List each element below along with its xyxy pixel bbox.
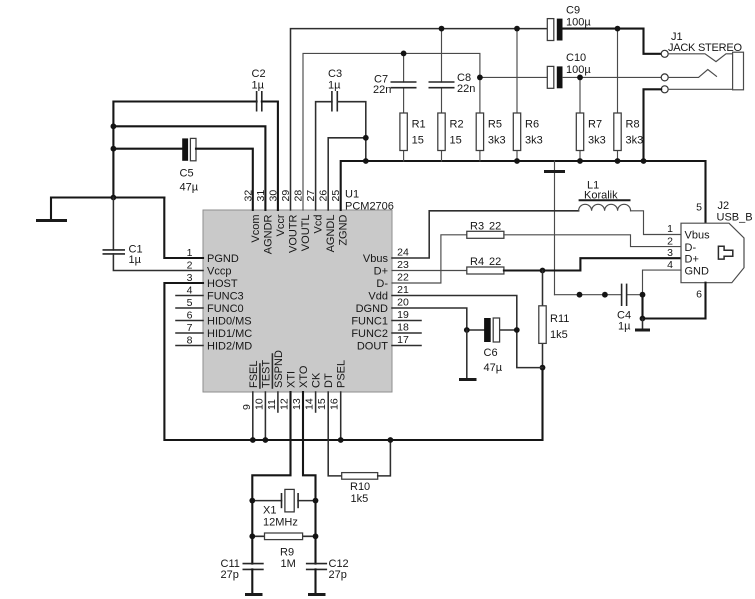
svg-text:18: 18 (397, 322, 409, 334)
svg-text:47µ: 47µ (484, 362, 503, 374)
wire pin 4 stub (176, 295, 203, 297)
svg-text:R5: R5 (488, 119, 502, 131)
junction on bus at C5 row (111, 146, 117, 152)
resistor R8 3k3 and leads (617, 29, 619, 161)
ground (USB/C4) (635, 319, 650, 331)
svg-text:XTI: XTI (286, 371, 298, 388)
wire R1/C7 column from VOUTL row (403, 53, 405, 161)
U1 top pin number 28 (293, 190, 305, 202)
svg-text:2: 2 (667, 235, 673, 247)
U1 top pin number 26 (318, 190, 330, 202)
svg-text:100µ: 100µ (566, 17, 591, 29)
wire pin3 HOST riser and bottom Vdd rail (164, 283, 542, 440)
junction rail at R7 (577, 158, 583, 164)
ground (below C6) (459, 330, 477, 380)
svg-text:6: 6 (696, 289, 702, 301)
wire AGNDR row to pin31 (113, 126, 265, 210)
wire C4 ground row (555, 294, 643, 296)
wire pin10 TEST drop (264, 392, 266, 440)
svg-text:D+: D+ (685, 253, 699, 265)
U1 bottom pin number 10 (253, 398, 265, 410)
wire VOUTR pin29 riser and row to C9 (291, 29, 548, 210)
U1 right pin name DOUT (357, 341, 388, 353)
U1 top pin number 31 (255, 190, 267, 202)
svg-text:1µ: 1µ (252, 80, 265, 92)
wire pin 17 stub (392, 345, 421, 347)
svg-text:3k3: 3k3 (525, 135, 543, 147)
svg-text:22: 22 (489, 220, 501, 232)
svg-text:GND: GND (685, 265, 710, 277)
crystal X1 12MHz (252, 489, 315, 528)
svg-text:3k3: 3k3 (588, 135, 606, 147)
wire PGND pin1 riser (164, 198, 203, 259)
svg-text:C10: C10 (566, 52, 586, 64)
wire pin 8 stub (176, 345, 203, 347)
capacitor C1 1u (103, 244, 143, 267)
svg-text:3k3: 3k3 (488, 135, 506, 147)
U1 left pin number 7 (187, 322, 193, 334)
resistor R1 15 (400, 113, 426, 151)
svg-text:R11: R11 (550, 313, 569, 325)
resistor R7 3k3 and leads (579, 77, 581, 161)
svg-text:CK: CK (311, 372, 323, 388)
wire pin 18 stub (392, 332, 421, 334)
overbar on TEST pin name (259, 364, 261, 388)
capacitor C12 27p (306, 558, 349, 581)
wire pin11 stub (277, 392, 279, 412)
capacitor C11 27p (221, 558, 264, 581)
U1 bottom pin number 15 (316, 398, 328, 410)
svg-text:1: 1 (667, 223, 673, 235)
U1 right pin number 23 (397, 259, 409, 271)
U1 left pin number 2 (187, 260, 193, 272)
junction C4 row a (577, 292, 583, 298)
U1 right pin number 18 (397, 322, 409, 334)
svg-text:DOUT: DOUT (357, 341, 388, 353)
U1 left pin number 6 (187, 310, 193, 322)
svg-text:TEST: TEST (260, 360, 272, 388)
svg-text:100µ: 100µ (566, 64, 591, 76)
resistor R4 22 (467, 256, 504, 274)
U1 bottom pin number 14 (304, 398, 316, 410)
junction VOUTR row at R6 (514, 26, 520, 32)
junction VOUTR row at C8 (439, 26, 445, 32)
capacitor C8 22n (429, 72, 476, 95)
U1 top pin name Vcd (pin 27) (313, 215, 325, 234)
U1 top pin number 30 (267, 190, 279, 202)
svg-text:Koralik: Koralik (584, 189, 618, 201)
svg-text:C9: C9 (566, 5, 580, 17)
wire pin14 stub (315, 392, 317, 412)
svg-text:Vcom: Vcom (250, 215, 262, 243)
U1 left pin number 5 (187, 297, 193, 309)
U1 top pin number 32 (242, 190, 254, 202)
wire left ground bus vertical and top wire to C2 (113, 102, 256, 198)
wire to left ground symbol (51, 198, 164, 219)
svg-text:JACK STEREO: JACK STEREO (668, 42, 742, 54)
svg-text:PSEL: PSEL (336, 360, 348, 388)
junction C10 row at R7 (577, 75, 583, 81)
svg-text:X1: X1 (263, 505, 276, 517)
svg-text:5: 5 (696, 202, 702, 214)
wire C3 right to ground rail (337, 102, 366, 161)
svg-text:C5: C5 (180, 168, 194, 180)
svg-text:HOST: HOST (207, 278, 238, 290)
junction crystal left (249, 498, 255, 504)
ground (top left) (36, 219, 67, 222)
ground (C12) (308, 569, 326, 594)
U1 left pin name HID1/MC (207, 328, 252, 340)
svg-text:27p: 27p (221, 569, 239, 581)
resistor R3 22 (467, 220, 504, 238)
U1 top pin name Vcom (pin 32) (250, 215, 262, 243)
U1 reference label (345, 189, 394, 213)
junction VOUTL row at C7 (401, 51, 407, 57)
U1 right pin name Vbus (363, 253, 389, 265)
wire jack sleeve to ground rail (644, 89, 662, 161)
wire C9 right to jack tip (563, 29, 662, 54)
wire pin 6 stub (176, 320, 203, 322)
svg-text:1µ: 1µ (618, 321, 631, 333)
svg-text:20: 20 (397, 297, 409, 309)
U1 left pin name HOST (207, 278, 238, 290)
capacitor C3 1u (328, 68, 342, 112)
U1 right pin name Vdd (368, 291, 388, 303)
capacitor C9 100u (547, 5, 591, 41)
svg-text:8: 8 (187, 335, 193, 347)
jack ring contact (661, 70, 716, 81)
wire pin 7 stub (176, 332, 203, 334)
resistor R9 1M (252, 533, 315, 570)
U1 right pin name FUNC2 (351, 328, 388, 340)
op-amp U1 PCM2706 IC body (203, 210, 392, 392)
U1 left pin name HID2/MD (207, 341, 252, 353)
svg-text:R7: R7 (588, 119, 602, 131)
U1 bottom pin number 12 (279, 398, 291, 410)
U1 right pin name DGND (356, 303, 388, 315)
junction rail at R8 (615, 158, 621, 164)
resistor R6 3k3 and leads (516, 29, 518, 161)
svg-text:15: 15 (412, 135, 424, 147)
wire pin9 FSEL drop (252, 392, 254, 440)
svg-text:C2: C2 (252, 68, 266, 80)
svg-text:PGND: PGND (207, 253, 239, 265)
U1 left pin name Vccp (207, 266, 231, 278)
U1 top pin number 29 (280, 190, 292, 202)
svg-text:D+: D+ (374, 266, 388, 278)
wire C2 to pin30 Vccr (262, 102, 278, 211)
svg-text:R9: R9 (280, 547, 294, 559)
U1 bottom pin number 9 (241, 404, 253, 410)
svg-text:22: 22 (397, 272, 409, 284)
U1 top pin name ZGND (pin 25) (338, 214, 350, 245)
U1 left pin number 8 (187, 335, 193, 347)
junction R9 left (249, 533, 255, 539)
U1 left pin name HID0/MS (207, 316, 252, 328)
svg-text:3k3: 3k3 (626, 135, 644, 147)
U1 right pin name D- (376, 278, 388, 290)
svg-text:17: 17 (397, 334, 409, 346)
junction on bus at ground row (111, 195, 117, 201)
svg-text:14: 14 (304, 398, 316, 410)
U1 right pin name FUNC1 (351, 316, 388, 328)
resistor R10 1k5 (342, 473, 378, 505)
svg-text:FSEL: FSEL (248, 360, 260, 388)
svg-text:12: 12 (279, 398, 291, 410)
U1 bottom pin name SSPND (pin 11) (273, 350, 285, 388)
ground (tap on analog rail) (544, 161, 565, 295)
wire AGNDL pin26 (328, 138, 366, 210)
svg-text:R1: R1 (412, 119, 426, 131)
junction rail at R10 (388, 437, 394, 443)
svg-text:15: 15 (316, 398, 328, 410)
svg-text:27p: 27p (329, 569, 347, 581)
wire Vdd pin21 to C6 and R11 (392, 296, 543, 368)
junction crystal right (313, 498, 319, 504)
U1 right pin number 17 (397, 334, 409, 346)
resistor R2 15 (438, 113, 464, 151)
svg-text:21: 21 (397, 284, 409, 296)
svg-text:1k5: 1k5 (550, 329, 568, 341)
junction VOUTL at R5 column (477, 75, 483, 81)
svg-text:1k5: 1k5 (351, 493, 369, 505)
svg-text:AGNDL: AGNDL (325, 215, 337, 253)
capacitor C7 22n (373, 73, 417, 95)
wire C5 to pin32 Vcom (196, 149, 253, 210)
U1 bottom pin name FSEL (pin 9) (248, 360, 260, 388)
svg-text:1µ: 1µ (328, 80, 341, 92)
svg-text:FUNC2: FUNC2 (351, 328, 388, 340)
svg-text:R6: R6 (525, 119, 539, 131)
U1 bottom pin name DT (pin 15) (323, 373, 335, 388)
svg-text:Vdd: Vdd (368, 291, 388, 303)
svg-text:DGND: DGND (356, 303, 388, 315)
junction AGNDL joins C3 column (363, 135, 369, 141)
svg-text:C3: C3 (328, 68, 342, 80)
wire R10 right to rail (378, 440, 391, 476)
svg-text:5: 5 (187, 297, 193, 309)
svg-text:U1: U1 (345, 189, 359, 201)
svg-text:Vccp: Vccp (207, 266, 231, 278)
svg-text:Vcd: Vcd (313, 215, 325, 234)
svg-text:22n: 22n (373, 84, 391, 96)
U1 right pin name D+ (374, 266, 388, 278)
wire C1 to pin2 Vccp (113, 254, 203, 271)
svg-text:47µ: 47µ (180, 182, 199, 194)
capacitor C10 100u (547, 52, 591, 89)
junction C4 row b (602, 292, 608, 298)
junction C6 right with Vdd (514, 327, 520, 333)
U1 left pin name FUNC3 (207, 291, 244, 303)
svg-text:R4: R4 (470, 256, 484, 268)
wire VOUTL pin28 riser and row (303, 53, 480, 210)
U1 bottom pin name XTI (pin 12) (286, 371, 298, 388)
svg-text:VOUTR: VOUTR (288, 214, 300, 253)
junction C9 row at R8 (615, 26, 621, 32)
svg-text:AGNDR: AGNDR (262, 214, 274, 254)
U1 right pin number 19 (397, 309, 409, 321)
inductor L1 Koralik (579, 180, 631, 211)
svg-text:Vbus: Vbus (685, 230, 711, 242)
junction rail at C3/AGNDL column (363, 158, 369, 164)
svg-text:16: 16 (329, 398, 341, 410)
ground (C11) (245, 569, 263, 594)
wire USB GND pin4 (643, 270, 682, 295)
svg-text:23: 23 (397, 259, 409, 271)
svg-text:R10: R10 (350, 481, 370, 493)
wire R2/C8 column from VOUTR row (441, 29, 443, 161)
U1 top pin name VOUTL (pin 28) (300, 215, 312, 252)
jack body (733, 52, 744, 90)
U1 left pin name FUNC0 (207, 303, 244, 315)
svg-text:12MHz: 12MHz (263, 517, 298, 529)
U1 bottom pin name TEST (pin 10) (260, 360, 272, 388)
wire pin16 PSEL drop (340, 392, 342, 440)
wire bus down to C1 (112, 198, 114, 250)
connector J2 USB_B body (681, 200, 753, 283)
jack tip contact (661, 50, 732, 61)
U1 top pin name Vccr (pin 30) (275, 214, 287, 236)
U1 bottom pin number 16 (329, 398, 341, 410)
U1 right pin number 22 (397, 272, 409, 284)
capacitor C2 (252, 68, 266, 112)
wire DGND pin20 to C6 left (392, 308, 467, 330)
capacitor C4 1u (617, 284, 631, 333)
svg-text:24: 24 (397, 247, 409, 259)
jack sleeve contact (661, 86, 732, 93)
svg-text:Vccr: Vccr (275, 214, 287, 236)
wire pin13 XTO to crystal (303, 392, 316, 564)
svg-text:HID0/MS: HID0/MS (207, 316, 252, 328)
svg-text:HID1/MC: HID1/MC (207, 328, 252, 340)
wire L1 to USB Vbus pin1 (631, 211, 682, 235)
U1 top pin number 25 (330, 190, 342, 202)
wire USB pin6 return (643, 283, 706, 319)
junction on bus at AGNDR row (111, 123, 117, 129)
wire pin 5 stub (176, 307, 203, 309)
junction R11 bottom with Vdd rail (540, 365, 546, 371)
U1 left pin number 4 (187, 285, 193, 297)
resistor R5 3k3 and leads (479, 151, 481, 162)
svg-text:C6: C6 (484, 347, 498, 359)
junction C6 left with DGND (464, 327, 470, 333)
svg-text:22: 22 (489, 256, 501, 268)
U1 top pin name AGNDL (pin 26) (325, 215, 337, 253)
junction USB GND column at C4 row (640, 292, 646, 298)
connector J1 JACK STEREO labels (668, 31, 742, 54)
U1 bottom pin name PSEL (pin 16) (336, 360, 348, 388)
U1 left pin number 1 (187, 247, 193, 259)
svg-text:R8: R8 (626, 119, 640, 131)
svg-text:Vbus: Vbus (363, 253, 389, 265)
wire R3 to USB D- pin2 (504, 235, 681, 247)
junction D+ at R11 (540, 268, 546, 274)
wire C10 right to jack ring (563, 76, 662, 78)
U1 right pin number 20 (397, 297, 409, 309)
overbar on SSPND pin name (271, 354, 273, 388)
svg-text:11: 11 (266, 399, 278, 410)
U1 top pin number 27 (305, 190, 317, 202)
U1 right pin number 21 (397, 284, 409, 296)
svg-text:VOUTL: VOUTL (300, 215, 312, 252)
capacitor C5 47u polarized (180, 138, 199, 193)
wire D+ pin23 to R4 (392, 270, 467, 272)
junction pin6 wire at ground column (640, 316, 646, 322)
wire pin12 XTI to crystal (252, 392, 290, 564)
USB pin names (685, 230, 711, 278)
svg-text:XTO: XTO (298, 365, 310, 388)
U1 left pin name PGND (207, 253, 239, 265)
svg-text:7: 7 (187, 322, 193, 334)
svg-text:FUNC0: FUNC0 (207, 303, 244, 315)
svg-text:D-: D- (685, 242, 697, 254)
wire pin27 Vcd to C3 (316, 102, 332, 210)
svg-text:FUNC1: FUNC1 (351, 316, 388, 328)
svg-text:15: 15 (450, 135, 462, 147)
wire C10 row left (480, 76, 547, 78)
svg-text:6: 6 (187, 310, 193, 322)
svg-text:ZGND: ZGND (338, 214, 350, 245)
wire C5 row left (113, 148, 182, 150)
svg-text:1µ: 1µ (129, 254, 142, 266)
svg-text:3: 3 (667, 247, 673, 259)
wire D- pin22 riser to R3 (392, 235, 467, 283)
svg-text:4: 4 (667, 259, 673, 271)
U1 left pin number 3 (187, 272, 193, 284)
svg-text:9: 9 (241, 404, 253, 410)
svg-text:2: 2 (187, 260, 193, 272)
U1 bottom pin number 11 (266, 399, 278, 410)
svg-text:FUNC3: FUNC3 (207, 291, 244, 303)
capacitor C6 47u (467, 318, 517, 374)
svg-text:PCM2706: PCM2706 (345, 201, 394, 213)
svg-text:HID2/MD: HID2/MD (207, 341, 252, 353)
svg-text:R3: R3 (470, 220, 484, 232)
svg-text:D-: D- (376, 278, 388, 290)
svg-text:J2: J2 (718, 200, 730, 212)
svg-text:R2: R2 (450, 119, 464, 131)
U1 bottom pin name XTO (pin 13) (298, 365, 310, 388)
wire ZGND pin25 riser and analog ground rail to USB pin5 (341, 161, 706, 223)
U1 top pin name AGNDR (pin 31) (262, 214, 274, 254)
svg-text:SSPND: SSPND (273, 350, 285, 388)
wire pin 19 stub (392, 320, 421, 322)
USB pin numbers 1-6 (667, 202, 702, 301)
svg-text:19: 19 (397, 309, 409, 321)
wire R4 to USB D+ pin3 (504, 258, 681, 270)
junction R9 right (313, 533, 319, 539)
svg-text:13: 13 (291, 398, 303, 410)
U1 top pin name VOUTR (pin 29) (288, 214, 300, 253)
junction rail at R6 (514, 158, 520, 164)
svg-text:10: 10 (253, 398, 265, 410)
U1 bottom pin number 13 (291, 398, 303, 410)
wire Vbus pin24 to L1 (392, 211, 579, 258)
svg-text:DT: DT (323, 373, 335, 388)
svg-text:1M: 1M (281, 558, 296, 570)
resistor R11 1k5 (539, 271, 570, 368)
svg-text:USB_B: USB_B (717, 212, 753, 224)
wire pin15 DT to R10 (328, 392, 342, 476)
junction rail at jack sleeve drop (641, 158, 647, 164)
svg-text:4: 4 (187, 285, 193, 297)
U1 right pin number 24 (397, 247, 409, 259)
U1 bottom pin name CK (pin 14) (311, 372, 323, 388)
svg-text:22n: 22n (457, 83, 475, 95)
